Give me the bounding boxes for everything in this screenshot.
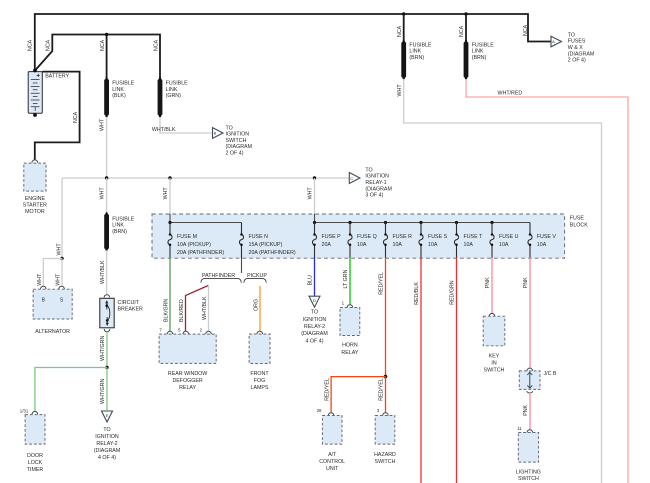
svg-text:E: E [106, 413, 109, 418]
svg-text:LINK: LINK [472, 49, 484, 55]
svg-text:ORG: ORG [254, 299, 260, 311]
svg-text:WHT: WHT [163, 187, 169, 200]
connector alternator S [59, 286, 65, 289]
svg-text:WHT: WHT [397, 84, 403, 97]
wire WHT/BLK to ignition switch [160, 117, 212, 133]
svg-text:10A (PICKUP): 10A (PICKUP) [177, 242, 211, 248]
svg-text:10A: 10A [428, 242, 438, 248]
svg-text:WHT: WHT [308, 187, 314, 200]
node junction second bus [105, 33, 108, 36]
fuse U [490, 223, 494, 259]
svg-text:HORN: HORN [342, 343, 358, 349]
svg-text:FUSIBLE: FUSIBLE [472, 42, 495, 48]
svg-text:LT GRN: LT GRN [343, 269, 349, 288]
svg-text:FUSIBLE: FUSIBLE [409, 42, 432, 48]
svg-text:1/31: 1/31 [20, 408, 29, 413]
wire in-block feed fuse P [314, 214, 316, 223]
wire WHT right side long [404, 79, 602, 483]
svg-text:STARTER: STARTER [23, 202, 47, 208]
wire drop to fusible link BRN right 1 [403, 14, 405, 42]
svg-text:RELAY-2: RELAY-2 [96, 441, 117, 447]
wire WHT/BLK to circuit breaker [106, 250, 108, 294]
svg-text:LAMPS: LAMPS [251, 385, 269, 391]
key in switch [483, 316, 505, 346]
fusible link BRN right 2 [464, 40, 469, 80]
fusible link GRN [158, 77, 163, 117]
fuse T [454, 223, 458, 259]
svg-text:(BLK): (BLK) [112, 93, 126, 99]
connector circuit breaker top [104, 295, 110, 298]
svg-text:ALTERNATOR: ALTERNATOR [35, 329, 70, 335]
svg-text:C: C [350, 176, 353, 181]
node fuse Q top [348, 221, 351, 224]
svg-text:NCA: NCA [100, 39, 106, 51]
svg-text:LINK: LINK [112, 223, 124, 229]
lighting switch [518, 433, 538, 463]
connector key in switch [489, 313, 495, 316]
fuse R [383, 223, 387, 259]
svg-text:IGNITION: IGNITION [226, 132, 250, 138]
svg-text:PNK: PNK [523, 277, 529, 288]
svg-text:SWITCH: SWITCH [518, 476, 539, 482]
wire NCA drop to fusible link BLK [106, 35, 108, 79]
svg-text:2: 2 [200, 327, 203, 332]
svg-text:4 OF 4): 4 OF 4) [306, 338, 324, 344]
connector engine starter motor [32, 160, 38, 163]
svg-text:10A: 10A [464, 242, 474, 248]
wire WHT/GRN breaker down [106, 332, 108, 368]
wire in-block feed fuse M [169, 214, 171, 223]
bracket pathfinder [201, 278, 241, 282]
connector defogger 5 [183, 331, 189, 334]
fuse Q [348, 223, 352, 259]
wire WHT/BLK to defogger relay [208, 285, 210, 331]
svg-text:LOCK: LOCK [28, 460, 43, 466]
svg-text:WHT/RED: WHT/RED [498, 91, 523, 97]
svg-text:LINK: LINK [112, 87, 124, 93]
fusible link BRN mid [104, 212, 109, 251]
hazard switch [375, 416, 395, 445]
svg-text:FUSE R: FUSE R [393, 234, 413, 240]
wire ORG to front fog lamps [259, 286, 261, 331]
svg-text:(BRN): (BRN) [112, 229, 127, 235]
svg-text:B: B [214, 131, 217, 136]
svg-text:ENGINE: ENGINE [25, 196, 46, 202]
svg-text:WHT: WHT [37, 273, 43, 286]
svg-text:28: 28 [317, 408, 322, 413]
svg-text:TO: TO [568, 32, 575, 38]
svg-text:WHT: WHT [56, 243, 62, 256]
svg-text:20A (PATHFINDER): 20A (PATHFINDER) [177, 250, 224, 256]
svg-text:IN: IN [491, 360, 496, 366]
svg-text:(DIAGRAM: (DIAGRAM [226, 144, 253, 150]
node alternator split [60, 257, 63, 260]
svg-text:20A: 20A [322, 242, 332, 248]
svg-text:NCA: NCA [154, 39, 160, 51]
svg-text:5: 5 [178, 327, 181, 332]
wire WHT/GRN to door lock timer [35, 368, 107, 413]
svg-text:BATTERY: BATTERY [45, 73, 69, 79]
svg-text:(BRN): (BRN) [409, 55, 424, 61]
connector J/C B top [527, 368, 533, 371]
svg-text:RED/YEL: RED/YEL [325, 378, 331, 401]
svg-text:PNK: PNK [485, 277, 491, 288]
svg-text:FUSIBLE: FUSIBLE [112, 216, 135, 222]
svg-text:3 OF 4): 3 OF 4) [365, 193, 383, 199]
svg-text:FUSE: FUSE [570, 216, 585, 222]
node bus at fuse M drop [168, 176, 171, 179]
svg-text:SWITCH: SWITCH [226, 138, 247, 144]
svg-text:(DIAGRAM: (DIAGRAM [94, 448, 121, 454]
node bus at fuse P drop [313, 176, 316, 179]
arrow C to ignition relay-1 [349, 173, 360, 184]
svg-text:RED/YEL: RED/YEL [379, 272, 385, 295]
svg-text:(BRN): (BRN) [472, 55, 487, 61]
svg-text:WHT/GRN: WHT/GRN [100, 336, 106, 361]
svg-text:4 OF 4): 4 OF 4) [98, 455, 116, 461]
svg-text:11: 11 [517, 426, 522, 431]
wire RED/GRN fuse T down [456, 258, 458, 483]
svg-text:D: D [313, 298, 316, 303]
connector front fog lamps [257, 331, 263, 334]
node fuse T top [455, 221, 458, 224]
wire RED/BLK fuse S down [420, 258, 422, 483]
svg-text:FUSE P: FUSE P [322, 234, 342, 240]
front fog lamps [249, 334, 270, 364]
wire RED/YEL to A/T control unit [331, 377, 385, 413]
svg-text:TO: TO [103, 427, 110, 433]
node WHT/GRN junction [105, 366, 108, 369]
wire NCA battery to engine starter motor [35, 72, 80, 160]
wire WHT drop to fuse M [169, 178, 171, 214]
svg-text:10A: 10A [499, 242, 509, 248]
connector lighting switch [527, 430, 533, 433]
wire WHT drop to fuse P [314, 178, 316, 214]
svg-text:NCA: NCA [459, 25, 465, 37]
svg-text:SWITCH: SWITCH [484, 367, 505, 373]
fuse P [312, 223, 316, 259]
fusible link BRN right 1 [401, 40, 406, 80]
svg-text:SWITCH: SWITCH [375, 459, 396, 465]
connector J/C B bottom [527, 391, 533, 393]
svg-text:FUSIBLE: FUSIBLE [166, 81, 189, 87]
svg-text:LINK: LINK [409, 49, 421, 55]
door lock timer [25, 415, 45, 445]
svg-text:BLK/GRN: BLK/GRN [163, 299, 169, 322]
fuse S [419, 223, 423, 259]
wire RED/YEL fuse R down [385, 258, 387, 377]
svg-text:BLOCK: BLOCK [570, 222, 588, 228]
svg-text:FUSE T: FUSE T [464, 234, 484, 240]
arrow D to ignition relay-2 [309, 296, 320, 307]
svg-text:2 OF 4): 2 OF 4) [226, 151, 244, 157]
svg-text:2 OF 4): 2 OF 4) [568, 58, 586, 64]
wire battery positive main bus NCA [35, 14, 551, 71]
svg-text:RED/BLK: RED/BLK [414, 282, 420, 305]
svg-text:(GRN): (GRN) [166, 93, 182, 99]
bracket pickup [244, 278, 266, 282]
svg-text:A/T: A/T [328, 452, 337, 458]
svg-text:RED/YEL: RED/YEL [379, 378, 385, 401]
svg-text:MOTOR: MOTOR [25, 209, 45, 215]
svg-text:FUSE Q: FUSE Q [357, 234, 377, 240]
wire PNK fuse U to key in switch [491, 258, 493, 315]
connector hazard switch [383, 413, 389, 416]
connector defogger 2 [206, 331, 212, 334]
svg-text:NCA: NCA [45, 39, 51, 51]
svg-text:RELAY-1: RELAY-1 [365, 180, 386, 186]
wire RED/YEL to hazard switch [385, 377, 387, 413]
svg-text:FUSE U: FUSE U [499, 234, 519, 240]
svg-text:BREAKER: BREAKER [118, 306, 143, 312]
svg-text:NCA: NCA [397, 25, 403, 37]
wire WHT horizontal bus [62, 177, 349, 179]
wire in-block bus M to N [170, 222, 242, 224]
svg-text:WHT/GRN: WHT/GRN [100, 379, 106, 404]
svg-text:W & X: W & X [568, 45, 583, 51]
svg-text:(DIAGRAM: (DIAGRAM [568, 51, 595, 57]
wire drop to fusible link BRN right 2 [465, 14, 467, 42]
svg-text:WHT: WHT [56, 273, 62, 286]
svg-text:A: A [552, 39, 555, 44]
connector defogger 7 [167, 331, 173, 334]
svg-text:20A (PATHFINDER): 20A (PATHFINDER) [249, 250, 296, 256]
wire LT GRN fuse Q to horn relay [349, 258, 351, 305]
node fuse P top [313, 221, 316, 224]
svg-text:IGNITION: IGNITION [95, 434, 119, 440]
node fuse M top [168, 221, 171, 224]
fuse V [528, 223, 532, 259]
svg-text:REAR WINDOW: REAR WINDOW [168, 371, 207, 377]
junction connector J/C B [519, 371, 540, 390]
svg-text:LINK: LINK [166, 87, 178, 93]
svg-text:UNIT: UNIT [326, 466, 339, 472]
svg-text:NCA: NCA [73, 111, 79, 123]
svg-text:NCA: NCA [523, 24, 529, 36]
svg-text:FUSE N: FUSE N [249, 234, 269, 240]
svg-text:FUSIBLE: FUSIBLE [112, 81, 135, 87]
svg-text:3: 3 [377, 408, 380, 413]
wire fuse N tail [241, 258, 243, 274]
connector A/T control unit [328, 413, 334, 416]
wire WHT to alternator B [43, 259, 62, 287]
svg-text:CIRCUIT: CIRCUIT [118, 300, 140, 306]
connector door lock timer [32, 411, 38, 414]
svg-text:TIMER: TIMER [27, 467, 44, 473]
arrow A to fuses W and X [551, 36, 562, 47]
svg-text:NCA: NCA [28, 39, 34, 51]
fuse M [168, 223, 172, 259]
svg-text:15A (PICKUP): 15A (PICKUP) [249, 242, 283, 248]
engine starter motor [24, 163, 46, 191]
svg-text:1: 1 [342, 301, 345, 306]
svg-text:RELAY: RELAY [341, 350, 358, 356]
svg-text:BLK/RED: BLK/RED [179, 299, 185, 322]
svg-text:HAZARD: HAZARD [374, 452, 396, 458]
node main bus right link 2 [464, 12, 467, 15]
svg-text:(DIAGRAM: (DIAGRAM [301, 331, 328, 337]
svg-text:(DIAGRAM: (DIAGRAM [365, 186, 392, 192]
wire BLK/RED to defogger relay [186, 285, 209, 331]
svg-text:FUSES: FUSES [568, 39, 586, 45]
svg-text:FUSE V: FUSE V [537, 234, 557, 240]
arrow B to ignition switch [213, 128, 224, 139]
svg-text:FOG: FOG [254, 378, 265, 384]
wire PNK J/C B to lighting switch [529, 392, 531, 430]
svg-text:RELAY-2: RELAY-2 [304, 324, 325, 330]
wire WHT bus to fusible link BRN mid [106, 178, 108, 213]
node RED/YEL junction [384, 375, 388, 379]
svg-text:TO: TO [226, 125, 233, 131]
node fuse S top [419, 221, 422, 224]
svg-text:J/C B: J/C B [544, 371, 557, 377]
node main bus right link 1 [402, 12, 405, 15]
fuse N [239, 223, 243, 259]
svg-text:WHT/BLK: WHT/BLK [202, 296, 208, 320]
svg-text:WHT: WHT [100, 187, 106, 200]
wire WHT fusible link BLK to bus [106, 117, 108, 177]
svg-text:TO: TO [365, 167, 372, 173]
svg-text:IGNITION: IGNITION [365, 174, 389, 180]
node fuse R top [384, 221, 387, 224]
connector alternator B [41, 286, 47, 289]
A/T control unit [322, 416, 342, 445]
connector circuit breaker bottom [104, 329, 110, 332]
svg-text:10A: 10A [357, 242, 367, 248]
svg-text:IGNITION: IGNITION [303, 317, 327, 323]
wire WHT/GRN to arrow E [106, 368, 108, 411]
svg-text:RELAY: RELAY [179, 385, 196, 391]
node fuse U top [490, 221, 493, 224]
svg-text:BLU: BLU [308, 275, 314, 285]
battery [28, 69, 42, 117]
wire second bus NCA from battery [35, 35, 160, 79]
svg-text:CONTROL: CONTROL [319, 459, 345, 465]
svg-text:FUSE M: FUSE M [177, 234, 197, 240]
svg-text:WHT/BLK: WHT/BLK [152, 127, 176, 133]
svg-text:LIGHTING: LIGHTING [516, 469, 541, 475]
horn relay [340, 308, 360, 336]
svg-text:10A: 10A [537, 242, 547, 248]
svg-text:KEY: KEY [489, 353, 500, 359]
wire WHT bus down to alternator junction [61, 178, 63, 259]
fuse block [152, 214, 565, 258]
fusible link BLK [104, 77, 109, 117]
svg-text:PNK: PNK [523, 404, 529, 415]
svg-text:DOOR: DOOR [27, 453, 43, 459]
circuit breaker [100, 298, 114, 328]
svg-text:FRONT: FRONT [250, 371, 269, 377]
svg-text:WHT: WHT [100, 118, 106, 131]
wire in-block bus P to V [315, 222, 531, 224]
svg-text:WHT/BLK: WHT/BLK [100, 260, 106, 284]
wire PNK fuse V to junction connector B [529, 258, 531, 369]
svg-text:FUSE S: FUSE S [428, 234, 448, 240]
wire WHT/RED right side long [466, 79, 628, 483]
arrow E to ignition relay-2 [102, 411, 113, 422]
alternator [33, 289, 72, 319]
wire WHT to alternator S [61, 259, 63, 287]
svg-text:TO: TO [311, 310, 318, 316]
rear window defogger relay [159, 334, 216, 363]
connector horn relay [347, 305, 353, 308]
svg-text:7: 7 [159, 327, 162, 332]
svg-text:10A: 10A [393, 242, 403, 248]
svg-text:RED/GRN: RED/GRN [450, 280, 456, 305]
svg-text:DEFOGGER: DEFOGGER [172, 378, 202, 384]
wire BLU fuse P to arrow D [314, 258, 316, 296]
wire BLK/GRN fuse M to defogger relay [169, 258, 171, 332]
node bus at fusible link BLK [105, 176, 108, 179]
